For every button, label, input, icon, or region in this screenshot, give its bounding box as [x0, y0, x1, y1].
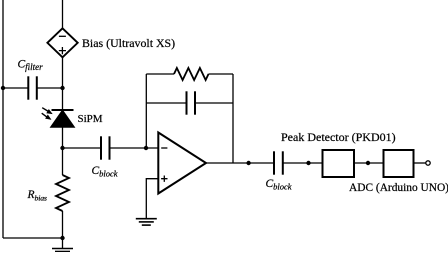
resistor feedback — [146, 68, 233, 80]
op-amp U1 — [158, 133, 206, 194]
node junction dot — [60, 146, 64, 150]
block Peak Detector — [323, 150, 355, 177]
capacitor Cfilter — [3, 76, 63, 99]
ground op-amp — [136, 219, 157, 225]
svg-text:ADC (Arduino UNO): ADC (Arduino UNO) — [349, 182, 448, 194]
wire feedback right rail — [232, 74, 234, 163]
junction dot output — [246, 161, 250, 165]
junction dot ADC input — [366, 161, 370, 165]
svg-text:Cfilter: Cfilter — [18, 59, 44, 73]
svg-text:Cblock: Cblock — [266, 178, 292, 192]
wire peak detector to ADC — [354, 162, 384, 164]
wire SiPM to node — [62, 127, 64, 148]
wire left rail — [2, 0, 4, 238]
resistor Rbias — [56, 148, 69, 238]
capacitor feedback — [146, 91, 233, 114]
block ADC — [384, 150, 414, 177]
junction dot left rail Cfilter — [1, 86, 5, 90]
wire non-inverting input — [146, 179, 158, 218]
wire ADC to terminal — [414, 162, 426, 164]
wire top feed — [62, 0, 64, 28]
junction dot main rail Cfilter — [60, 86, 64, 90]
svg-text:Rbias: Rbias — [27, 189, 47, 203]
junction dot peak detector input — [306, 161, 310, 165]
junction dot bottom rail — [60, 236, 64, 240]
junction dot inverting input — [144, 146, 148, 150]
photodiode SiPM — [42, 108, 74, 127]
terminal open circle — [426, 161, 430, 165]
wire bottom rail — [3, 237, 63, 239]
wire feedback left rail — [145, 74, 147, 148]
source V1 Bias diamond — [47, 28, 77, 57]
wire diamond to SiPM — [62, 57, 64, 110]
capacitor Cblock input — [63, 136, 159, 159]
ground main — [52, 238, 73, 252]
capacitor Cblock output — [274, 151, 323, 174]
svg-text:Bias (Ultravolt XS): Bias (Ultravolt XS) — [82, 36, 175, 50]
svg-text:Peak Detector (PKD01): Peak Detector (PKD01) — [281, 130, 396, 144]
svg-text:SiPM: SiPM — [78, 113, 103, 125]
wire op-amp output — [206, 162, 274, 164]
svg-text:Cblock: Cblock — [92, 165, 118, 179]
